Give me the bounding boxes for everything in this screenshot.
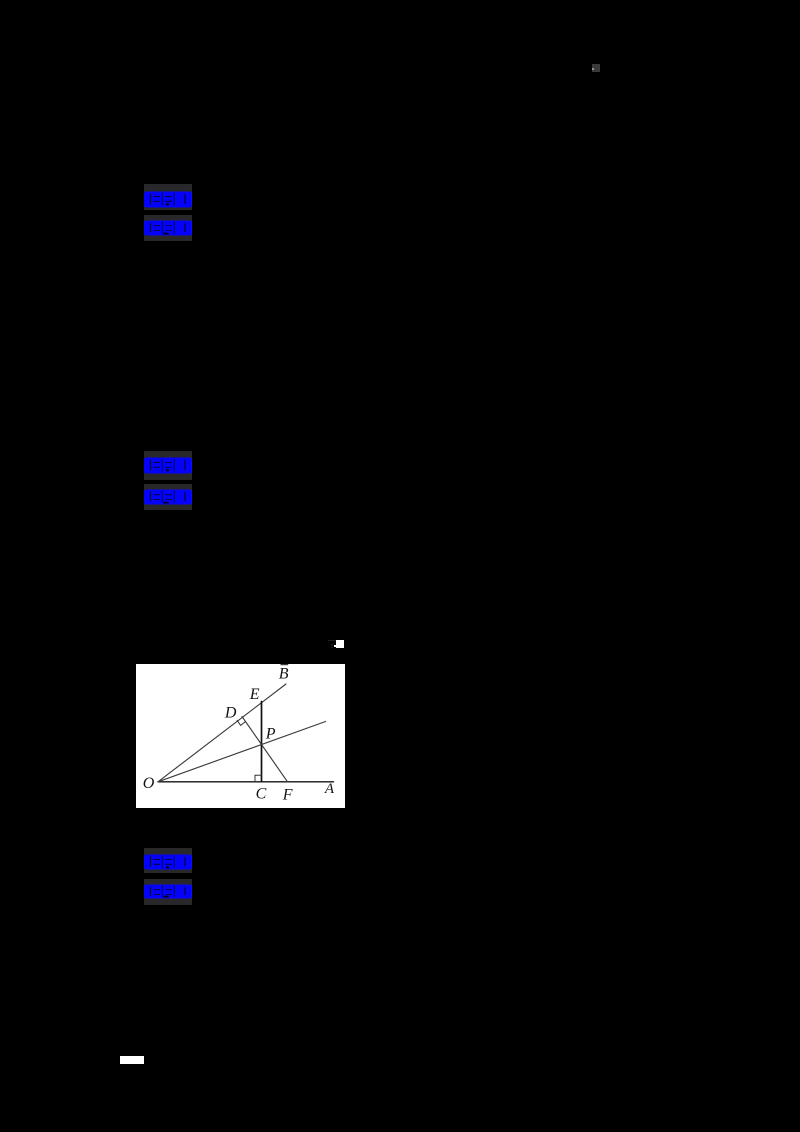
segment DF xyxy=(242,716,288,781)
segment EC vertical (bold) xyxy=(260,701,262,781)
analysis label 3 (blue 【解析】) xyxy=(144,884,191,899)
analysis label 2 (blue 【解析】) xyxy=(144,489,191,505)
svg-text:C: C xyxy=(255,785,266,802)
svg-text:F: F xyxy=(281,786,292,803)
analysis label 2 halo xyxy=(144,484,192,510)
figure white background xyxy=(136,664,345,808)
analysis label 1 halo xyxy=(144,215,192,241)
answer label 3 halo xyxy=(144,848,192,873)
small white formula fragment above figure xyxy=(328,640,336,641)
svg-text:A: A xyxy=(323,780,334,796)
right angle mark at D xyxy=(237,720,245,725)
answer label 1 halo xyxy=(144,184,192,210)
angle bisector ray through P xyxy=(158,721,326,781)
answer label 1 (blue 【答案】) xyxy=(144,191,191,208)
analysis label 1 (blue 【解析】) xyxy=(144,220,191,236)
answer label 2 halo xyxy=(144,451,192,480)
ray OA horizontal xyxy=(158,780,334,782)
svg-text:D: D xyxy=(223,704,236,721)
small tick on figure top edge xyxy=(281,663,288,665)
svg-text:E: E xyxy=(248,686,259,703)
geometry figure image xyxy=(136,664,345,808)
ray OB xyxy=(158,684,286,782)
svg-text:P: P xyxy=(264,725,275,742)
answer label 3 (blue 【答案】) xyxy=(144,854,191,870)
answer label 2 (blue 【答案】) xyxy=(144,457,191,474)
svg-text:B: B xyxy=(278,665,288,682)
small equation placeholder top right xyxy=(592,64,600,72)
right angle mark at C xyxy=(255,775,262,782)
page number bar bottom left xyxy=(120,1056,144,1064)
svg-text:O: O xyxy=(142,775,154,792)
analysis label 3 halo xyxy=(144,879,192,905)
